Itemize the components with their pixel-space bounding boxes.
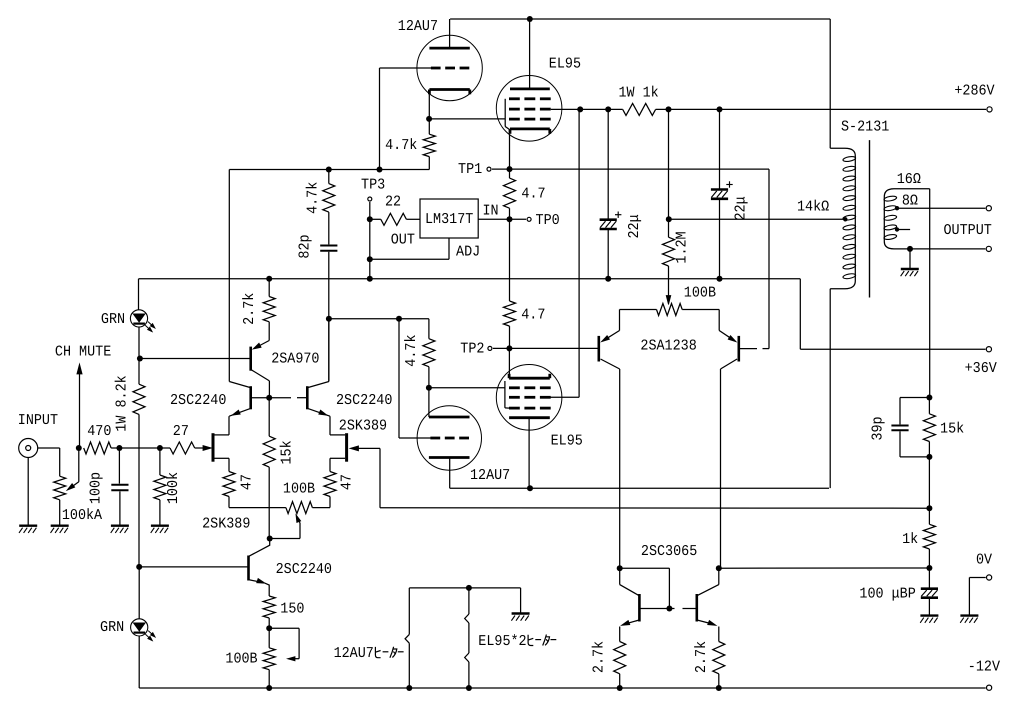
svg-text:1W 8.2k: 1W 8.2k — [113, 375, 130, 431]
svg-text:100p: 100p — [87, 472, 104, 504]
svg-text:15k: 15k — [279, 440, 296, 464]
svg-text:2SK389: 2SK389 — [339, 418, 387, 435]
svg-text:EL95: EL95 — [549, 56, 581, 73]
svg-text:100B: 100B — [225, 651, 257, 668]
svg-text:16Ω: 16Ω — [897, 171, 921, 188]
svg-text:-12V: -12V — [968, 658, 1000, 675]
svg-text:ADJ: ADJ — [456, 244, 480, 261]
svg-text:2.7k: 2.7k — [591, 641, 608, 673]
svg-text:GRN: GRN — [100, 619, 124, 636]
svg-text:GRN: GRN — [101, 311, 125, 328]
svg-text:4.7k: 4.7k — [403, 335, 420, 367]
svg-text:12AU7: 12AU7 — [334, 645, 374, 662]
svg-text:1k: 1k — [902, 531, 918, 548]
svg-text:12AU7: 12AU7 — [470, 467, 510, 484]
svg-text:TP2: TP2 — [460, 341, 484, 358]
svg-text:IN: IN — [483, 202, 499, 219]
svg-text:1W 1k: 1W 1k — [619, 85, 659, 102]
svg-text:100 μBP: 100 μBP — [859, 585, 915, 602]
svg-text:S-2131: S-2131 — [841, 119, 889, 136]
svg-text:82p: 82p — [297, 234, 314, 258]
svg-text:2SA1238: 2SA1238 — [640, 338, 696, 355]
svg-text:INPUT: INPUT — [18, 412, 58, 429]
svg-text:100B: 100B — [283, 480, 315, 497]
svg-text:2SC2240: 2SC2240 — [276, 561, 332, 578]
svg-text:4.7: 4.7 — [521, 306, 545, 323]
svg-text:4.7k: 4.7k — [305, 182, 322, 214]
svg-text:TP1: TP1 — [458, 161, 482, 178]
svg-text:2SA970: 2SA970 — [271, 351, 319, 368]
svg-text:12AU7: 12AU7 — [398, 18, 438, 35]
svg-text:2.7k: 2.7k — [241, 293, 258, 325]
svg-text:4.7: 4.7 — [521, 185, 545, 202]
svg-text:OUTPUT: OUTPUT — [944, 222, 992, 239]
svg-text:EL95: EL95 — [551, 433, 583, 450]
svg-text:27: 27 — [173, 423, 189, 440]
svg-text:8Ω: 8Ω — [902, 193, 918, 210]
svg-text:470: 470 — [87, 423, 111, 440]
svg-text:14kΩ: 14kΩ — [797, 199, 829, 216]
svg-text:39p: 39p — [870, 416, 887, 440]
svg-text:TP0: TP0 — [536, 212, 560, 229]
svg-text:22μ: 22μ — [733, 196, 750, 220]
svg-text:47: 47 — [239, 474, 256, 490]
svg-text:OUT: OUT — [391, 232, 415, 249]
svg-text:2SC2240: 2SC2240 — [170, 392, 226, 409]
svg-text:2SC2240: 2SC2240 — [336, 392, 392, 409]
svg-text:LM317T: LM317T — [425, 211, 473, 228]
svg-text:EL95*2: EL95*2 — [478, 633, 526, 650]
svg-text:2SK389: 2SK389 — [202, 516, 250, 533]
svg-text:22: 22 — [385, 194, 401, 211]
svg-text:2SC3065: 2SC3065 — [641, 543, 697, 560]
svg-text:22μ: 22μ — [626, 214, 643, 238]
svg-text:15k: 15k — [940, 420, 964, 437]
svg-text:100k: 100k — [165, 472, 182, 504]
svg-text:+286V: +286V — [954, 82, 994, 99]
svg-text:1.2M: 1.2M — [674, 231, 691, 263]
svg-text:100kA: 100kA — [62, 507, 102, 524]
svg-text:150: 150 — [280, 600, 304, 617]
svg-text:0V: 0V — [976, 552, 992, 569]
svg-text:CH MUTE: CH MUTE — [55, 344, 111, 361]
svg-text:4.7k: 4.7k — [385, 137, 417, 154]
svg-text:+36V: +36V — [965, 360, 997, 377]
svg-text:TP3: TP3 — [361, 177, 385, 194]
svg-text:47: 47 — [339, 474, 356, 490]
svg-text:100B: 100B — [684, 285, 716, 302]
svg-text:2.7k: 2.7k — [693, 641, 710, 673]
